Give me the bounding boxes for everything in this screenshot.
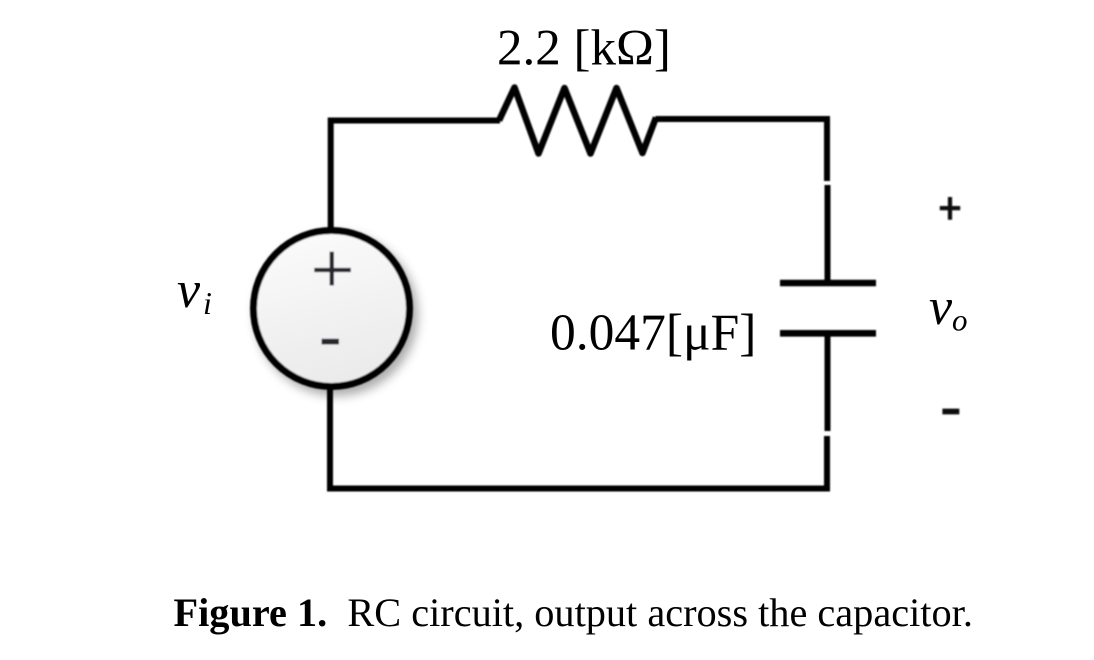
wire: right vertical upper (top corner down to capacitor lead) xyxy=(824,118,830,182)
capacitor bottom lead xyxy=(825,333,831,431)
capacitor top plate xyxy=(780,280,876,287)
capacitor bottom plate xyxy=(780,330,876,337)
resistor R=2.2 kOhm zigzag xyxy=(499,88,656,154)
svg-text:v: v xyxy=(929,279,953,336)
label: resistor value 2.2 [kOhm] xyxy=(497,20,671,76)
wire: left vertical upper (source top to top wire) xyxy=(328,118,334,233)
wire: top horizontal from source to resistor and capacitor branch xyxy=(328,119,830,121)
voltage source minus sign xyxy=(322,339,340,345)
output plus sign xyxy=(940,197,960,220)
wire: left vertical lower (source bottom to bottom wire) xyxy=(327,386,333,491)
wire: right vertical lower (capacitor lead to bottom corner) xyxy=(824,436,830,491)
svg-text:2.2 [kΩ]: 2.2 [kΩ] xyxy=(497,20,671,76)
capacitor C=0.047uF top lead xyxy=(825,185,831,283)
label: output voltage v_o xyxy=(929,279,968,338)
svg-text:v: v xyxy=(177,262,201,319)
svg-text:Figure 1. RC circuit, output: Figure 1. RC circuit, output across the … xyxy=(174,590,973,635)
label: capacitor value 0.047[uF] xyxy=(550,304,756,361)
output minus sign xyxy=(942,409,959,415)
svg-text:0.047[μF]: 0.047[μF] xyxy=(550,304,756,361)
svg-text:i: i xyxy=(203,285,212,321)
wire: bottom horizontal xyxy=(327,486,830,492)
caption: Figure 1. RC circuit, output across the capacitor. xyxy=(174,590,973,635)
svg-text:o: o xyxy=(952,303,968,338)
voltage source V1 circle (with drop shadow) xyxy=(254,231,410,387)
voltage source plus sign xyxy=(314,252,351,286)
label: input voltage v_i xyxy=(177,262,212,321)
